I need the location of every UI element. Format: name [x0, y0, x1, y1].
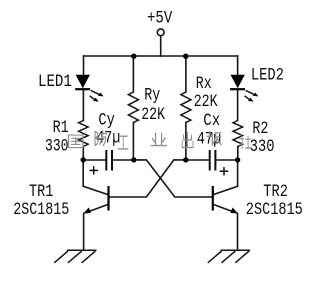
node C (Cx/Rx): [183, 157, 188, 162]
svg-text:Rx: Rx: [196, 74, 212, 94]
wire Rx to node C: [185, 123, 187, 161]
svg-text:2SC1815: 2SC1815: [246, 200, 303, 220]
capacitor Cy polarity +: [89, 166, 98, 174]
wire node A to Cy: [83, 159, 105, 161]
resistor Ry: [128, 92, 138, 123]
wire Cx to node D: [216, 159, 237, 161]
watermark: [68, 131, 250, 149]
wire +5V feed: [160, 36, 162, 56]
wire node A to TR1 collector: [83, 160, 108, 195]
wire node D to TR2 collector: [213, 160, 237, 195]
wire rail to LED2 anode: [237, 56, 239, 75]
resistor Rx: [181, 92, 191, 123]
wire node C to TR1 base (cross-coupling): [109, 160, 186, 197]
wire Cy to node B: [113, 159, 134, 161]
capacitor Cy: [106, 150, 112, 171]
ground (TR2 emitter): [208, 250, 250, 263]
junction node on rail at Ry: [131, 54, 136, 59]
watermark char chu: [182, 132, 193, 147]
svg-text:LED1: LED1: [38, 72, 72, 92]
capacitor Cx: [210, 150, 216, 171]
watermark char she: [240, 135, 251, 148]
junction node on rail at Rx: [183, 54, 188, 59]
svg-text:22K: 22K: [141, 105, 166, 125]
wire +5V rail: [84, 55, 238, 57]
ground (TR1 emitter): [54, 250, 96, 263]
watermark char gong: [118, 136, 128, 149]
wire rail to LED1 anode: [83, 56, 85, 75]
transistor TR2: [213, 186, 238, 214]
LED LED1: [75, 75, 103, 102]
svg-text:47µ: 47µ: [96, 128, 120, 148]
svg-text:22K: 22K: [194, 92, 219, 112]
wire node B to TR2 base (cross-coupling): [134, 160, 212, 197]
wire LED2 cathode to R2: [237, 90, 239, 121]
svg-text:R1: R1: [53, 118, 69, 138]
watermark char ye: [151, 133, 166, 145]
watermark char fang: [95, 131, 106, 146]
wire rail to Rx: [185, 56, 187, 92]
wire Ry to node B: [132, 123, 134, 161]
+5V supply terminal: [157, 29, 164, 36]
wire rail to Ry: [132, 56, 134, 92]
watermark char guo: [68, 135, 82, 148]
svg-text:LED2: LED2: [251, 66, 284, 86]
svg-text:2SC1815: 2SC1815: [13, 200, 69, 220]
wire R2 to node D: [237, 147, 239, 161]
transistor TR1: [83, 186, 108, 214]
wire TR2 emitter to ground: [237, 213, 239, 250]
LED LED2: [230, 75, 258, 102]
watermark char ban: [207, 132, 221, 145]
wire TR1 emitter to ground: [83, 213, 85, 250]
svg-text:Ry: Ry: [144, 86, 160, 106]
wire R1 to node A: [82, 147, 84, 161]
resistor R2: [233, 121, 243, 147]
node A (TR1 collector): [81, 157, 86, 162]
node D (TR2 collector): [235, 157, 240, 162]
resistor R1: [79, 121, 89, 147]
svg-text:330: 330: [250, 137, 275, 157]
svg-text:+5V: +5V: [147, 9, 172, 29]
wire LED1 cathode to R1: [82, 90, 84, 121]
svg-text:330: 330: [45, 137, 69, 157]
wire node C to Cx: [186, 159, 209, 161]
node B (Cy/Ry): [131, 157, 136, 162]
capacitor Cx polarity +: [220, 167, 229, 175]
svg-text:Cx: Cx: [203, 111, 220, 131]
